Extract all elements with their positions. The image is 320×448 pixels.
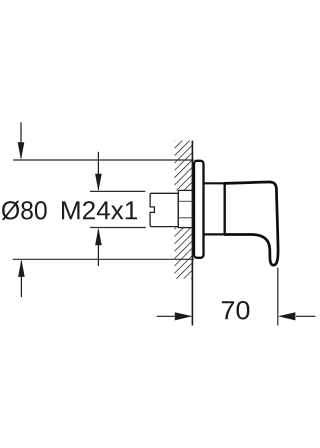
70 dim right arrow (points left) [296, 315, 316, 317]
dia80 bottom extension line [13, 258, 194, 260]
M24 bottom dimension arrow (up) [97, 230, 99, 267]
dia80 top extension line [13, 159, 194, 161]
handle bell front line [223, 182, 225, 235]
hex facet line upper [178, 200, 193, 202]
wall hatching [175, 141, 193, 279]
label 70 [222, 301, 250, 319]
neck top line [204, 182, 225, 184]
M24 top dimension arrow (down) [97, 152, 99, 190]
flange (escutcheon) [194, 161, 204, 258]
dia80 top dimension arrow (down) [20, 122, 22, 158]
M24 top extension line [90, 190, 145, 192]
label dia80 [2, 201, 47, 220]
right extension line of 70 dim (handle tip) [277, 268, 279, 326]
neck bottom line [204, 233, 225, 235]
70 dim left arrow (points right) [157, 315, 191, 317]
white cutout where valve passes through wall [150, 190, 192, 227]
wall face line / left extension line of 70 dim [191, 141, 193, 326]
dia80 bottom dimension arrow (up) [20, 261, 22, 297]
M24 bottom extension line [90, 227, 146, 229]
valve stem with slot notch [150, 193, 178, 226]
handle outline [225, 182, 278, 265]
hex facet line lower [178, 217, 193, 219]
label M24x1 [62, 201, 137, 219]
hex nut [178, 190, 193, 227]
